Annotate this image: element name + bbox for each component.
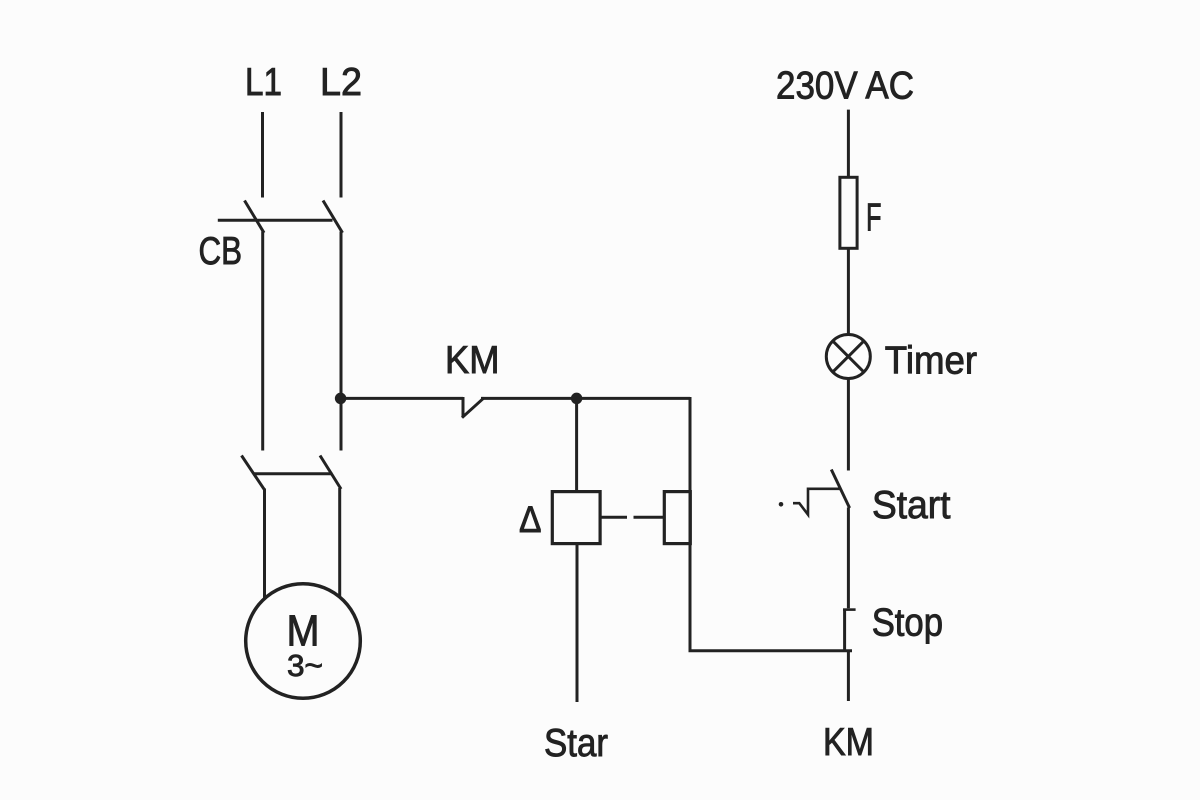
svg-text:KM: KM xyxy=(823,721,874,764)
timer lamp X stroke 2 xyxy=(833,341,864,372)
circuit breaker CB tie bar xyxy=(218,219,333,222)
svg-text:CB: CB xyxy=(199,230,243,273)
svg-text:L2: L2 xyxy=(320,61,362,104)
svg-text:KM: KM xyxy=(445,339,500,382)
node junction dot at star branch xyxy=(571,393,583,405)
wire Stop to KM coil xyxy=(847,651,850,701)
svg-text:F: F xyxy=(866,196,882,239)
circuit breaker CB pole L1 blade xyxy=(245,201,265,233)
wire star branch vertical to delta box xyxy=(575,398,578,491)
wire below delta box to Star xyxy=(576,544,579,702)
wire 230V AC to fuse xyxy=(847,110,850,178)
svg-text:Star: Star xyxy=(544,722,608,765)
delta contactor box xyxy=(552,492,600,544)
wire L2 to motor xyxy=(338,488,341,596)
svg-text:Start: Start xyxy=(872,484,951,527)
svg-text:Timer: Timer xyxy=(885,339,977,382)
contactor tie bar xyxy=(253,472,332,475)
wire horizontal from L2 node to KM contact xyxy=(341,397,463,400)
wire horizontal from KM contact to corner xyxy=(481,397,690,400)
timer lamp X stroke 1 xyxy=(833,341,864,372)
contactor main blade L2 xyxy=(320,456,341,490)
svg-text:Stop: Stop xyxy=(872,601,943,644)
fuse F rectangle xyxy=(840,177,857,248)
switch Start actuator linkage xyxy=(793,489,841,515)
mechanical link dash 2 xyxy=(634,516,666,519)
svg-text:Δ: Δ xyxy=(519,499,542,540)
svg-text:230V AC: 230V AC xyxy=(776,65,914,108)
switch Stop fixed contact T-bar xyxy=(843,608,856,611)
timer lamp circle xyxy=(826,335,870,379)
switch Start blade xyxy=(831,470,849,509)
switch Stop blade xyxy=(843,609,846,652)
mechanical link dash 1 xyxy=(600,516,627,519)
contact KM blade xyxy=(462,398,484,418)
switch Start actuator dot xyxy=(779,502,784,507)
svg-text:3~: 3~ xyxy=(287,648,323,683)
contact block rectangle xyxy=(664,492,690,544)
circuit breaker CB pole L2 blade xyxy=(323,201,343,233)
wire L1 middle xyxy=(261,232,264,451)
wire L2 top xyxy=(340,112,343,198)
contactor main blade L1 xyxy=(242,456,265,490)
wire L1 to motor xyxy=(263,489,266,600)
node junction dot on L2 xyxy=(335,393,347,405)
wire L1 top xyxy=(261,112,264,198)
svg-text:L1: L1 xyxy=(245,61,282,104)
motor M circle xyxy=(246,584,361,699)
contact KM break vertical xyxy=(462,397,465,418)
wire fuse to timer lamp xyxy=(847,248,850,334)
wire right branch down and across to Stop xyxy=(690,397,852,651)
wire L2 middle xyxy=(340,232,343,451)
wire Start to Stop xyxy=(847,508,850,609)
wire timer lamp to Start xyxy=(847,379,850,471)
